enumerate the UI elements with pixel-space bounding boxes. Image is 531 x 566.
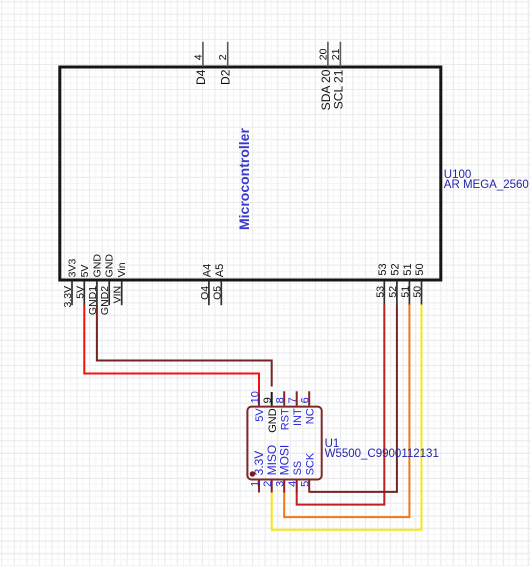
svg-text:50: 50: [412, 286, 424, 298]
wire 5V red: [84, 305, 259, 393]
U1 pin 9 stub (GND, black): [271, 392, 273, 406]
pin 50 stub: [421, 281, 423, 305]
svg-text:1: 1: [249, 481, 261, 487]
pin SDA stub: [327, 42, 329, 67]
svg-text:9: 9: [262, 397, 274, 403]
pin 53 stub: [383, 281, 385, 305]
pin GND2 stub: [108, 281, 110, 305]
U1 pin 3 stub: [283, 481, 285, 493]
svg-text:51: 51: [399, 286, 411, 298]
svg-text:3: 3: [275, 481, 287, 487]
pin A4 stub: [208, 281, 210, 305]
svg-text:7: 7: [287, 397, 299, 403]
U1 pin 2 stub: [271, 481, 273, 493]
svg-text:20: 20: [317, 48, 329, 60]
svg-text:5V: 5V: [254, 408, 266, 422]
svg-text:5V: 5V: [79, 265, 91, 278]
pin 3V3 stub: [71, 281, 73, 305]
svg-text:52: 52: [387, 286, 399, 298]
svg-text:5: 5: [300, 481, 312, 487]
svg-text:W5500_C9900112131: W5500_C9900112131: [325, 448, 439, 460]
svg-text:GND2: GND2: [99, 286, 111, 315]
pin D4 stub: [202, 42, 204, 67]
svg-text:3V3: 3V3: [67, 259, 79, 278]
svg-text:INT: INT: [292, 408, 304, 426]
U1 pin 8 stub: [283, 391, 285, 405]
svg-text:NC: NC: [304, 408, 316, 424]
pin 5V stub: [83, 281, 85, 305]
svg-text:O5: O5: [211, 286, 223, 300]
svg-text:3.3V: 3.3V: [62, 286, 74, 308]
svg-text:51: 51: [402, 263, 414, 275]
op-amp U100 body: microcontroller rectangle: [60, 67, 441, 280]
U1 pin 5 stub: [308, 481, 310, 493]
svg-text:SCL 21: SCL 21: [331, 69, 345, 109]
junction dot at U1 pin 1: [250, 471, 255, 476]
svg-text:8: 8: [275, 397, 287, 403]
svg-text:SS: SS: [292, 461, 304, 476]
svg-text:A4: A4: [201, 264, 213, 277]
U1 pin 6 stub: [308, 391, 310, 405]
svg-text:D2: D2: [219, 69, 233, 85]
svg-text:GND: GND: [91, 254, 103, 278]
svg-text:4: 4: [287, 481, 299, 487]
U1 pin 1 stub: [258, 481, 260, 493]
pin GND1 stub: [96, 281, 98, 305]
svg-text:VIN: VIN: [112, 286, 124, 304]
svg-text:GND: GND: [267, 408, 279, 433]
pin SCL stub: [339, 42, 341, 67]
svg-text:53: 53: [374, 286, 386, 298]
svg-text:6: 6: [300, 397, 312, 403]
svg-text:10: 10: [249, 391, 261, 403]
svg-text:53: 53: [377, 263, 389, 275]
svg-text:50: 50: [414, 263, 426, 275]
svg-text:O4: O4: [199, 286, 211, 300]
svg-text:5V: 5V: [74, 286, 86, 299]
svg-text:MOSI: MOSI: [277, 445, 291, 476]
wire GND1 dark red: [97, 305, 272, 387]
svg-text:52: 52: [389, 263, 401, 275]
svg-text:D4: D4: [194, 69, 208, 85]
wire 53 to SS: [297, 305, 385, 505]
pin D2 stub: [227, 42, 229, 67]
U1 pin 10 stub: [258, 393, 260, 406]
wire 51 to MOSI: [284, 305, 409, 518]
pin 51 stub: [408, 281, 410, 305]
svg-text:21: 21: [330, 48, 342, 60]
svg-text:RST: RST: [279, 408, 291, 430]
svg-text:2: 2: [262, 481, 274, 487]
svg-text:A5: A5: [214, 264, 226, 277]
wire 52 to SCK: [309, 305, 397, 492]
svg-text:GND: GND: [104, 254, 116, 278]
svg-text:2: 2: [217, 54, 229, 60]
wire 50 to MISO: [272, 305, 422, 530]
svg-text:4: 4: [192, 54, 204, 60]
module U1 body: W5500 rectangle: [247, 407, 321, 480]
svg-text:Microcontroller: Microcontroller: [236, 128, 252, 230]
svg-text:SCK: SCK: [304, 452, 316, 475]
U1 pin 4 stub: [296, 481, 298, 493]
pin 52 stub: [396, 281, 398, 305]
U1 pin 7 stub: [296, 391, 298, 405]
pin VIN stub: [121, 281, 123, 305]
svg-text:AR MEGA_2560: AR MEGA_2560: [444, 179, 529, 191]
svg-text:Vin: Vin: [116, 262, 128, 277]
pin A5 stub: [220, 281, 222, 305]
